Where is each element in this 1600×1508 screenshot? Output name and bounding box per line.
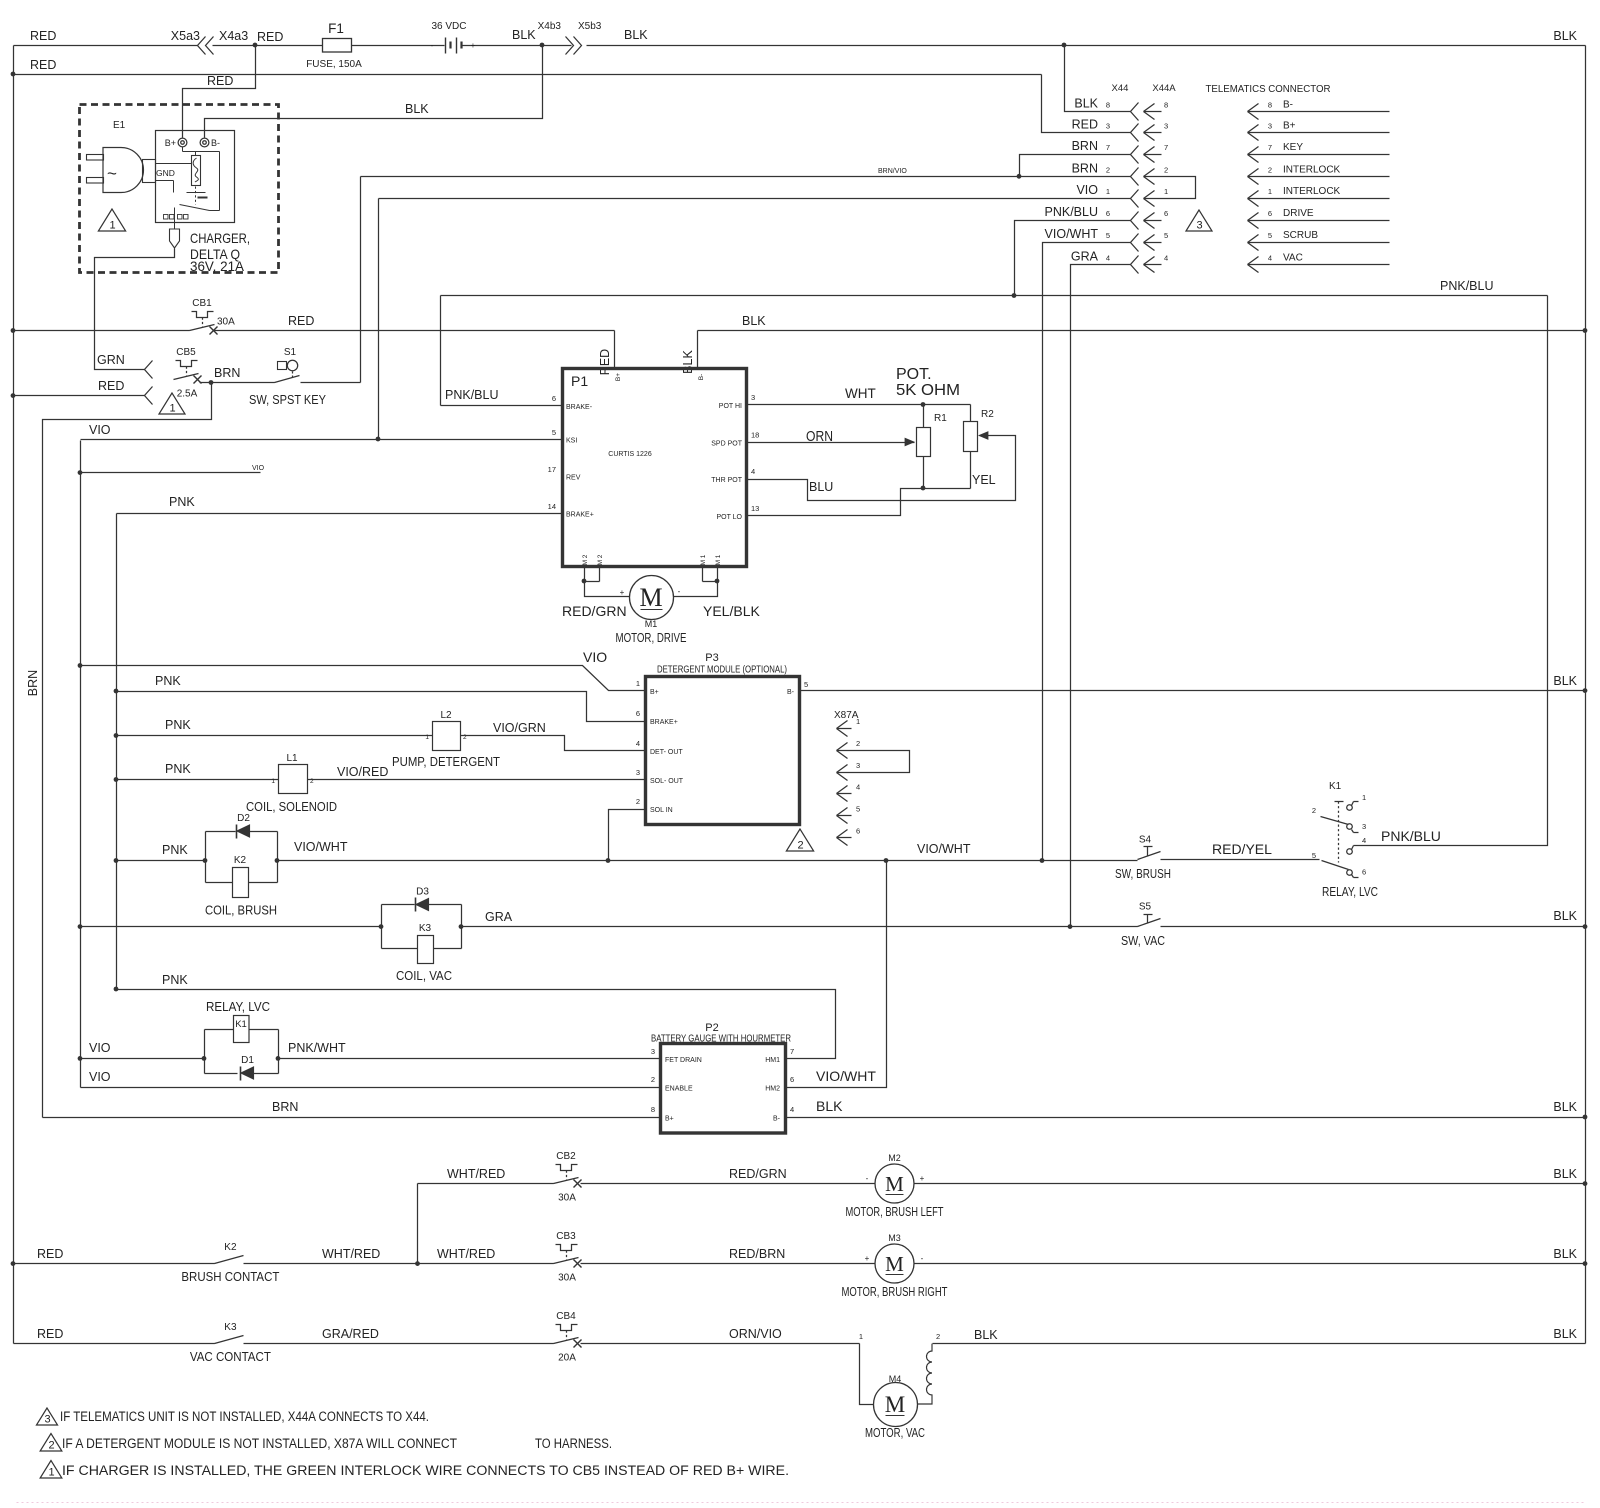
svg-text:RED/BRN: RED/BRN — [729, 1247, 785, 1261]
svg-text:BRAKE+: BRAKE+ — [566, 512, 594, 519]
svg-text:4: 4 — [790, 1105, 794, 1114]
wire VIO/RED from L1 to P3 SOL-OUT — [308, 765, 646, 780]
svg-text:B+: B+ — [650, 689, 659, 696]
svg-text:B+: B+ — [665, 1116, 674, 1123]
svg-text:3: 3 — [1362, 822, 1366, 831]
node junction left rail RED interlock row — [11, 393, 16, 398]
wire GRN charger interlock output — [95, 249, 175, 379]
node junction K1 loop right — [276, 1056, 281, 1061]
wire BLK from P3 B- to right rail — [800, 674, 1586, 691]
relay coil K3 with diode D3 loop — [382, 905, 462, 949]
svg-text:B-: B- — [773, 1116, 781, 1123]
svg-text:2: 2 — [1164, 165, 1168, 174]
svg-text:D1: D1 — [241, 1055, 254, 1066]
wire VIO to P3 B+ — [81, 649, 646, 691]
svg-text:PNK: PNK — [165, 718, 191, 732]
potentiometer labels POT. 5K OHM — [896, 366, 960, 399]
svg-text:BLK: BLK — [1553, 1247, 1577, 1261]
svg-text:GRN: GRN — [97, 353, 125, 367]
svg-text:3: 3 — [751, 393, 755, 402]
wire VIO/GRN from L2 to P3 DET-OUT — [461, 721, 646, 751]
wire right BLK rail vertical — [1585, 46, 1587, 1344]
svg-text:R2: R2 — [981, 409, 994, 420]
wire BLK charger B- to battery negative — [205, 46, 543, 138]
svg-text:RED: RED — [98, 379, 124, 393]
svg-text:6: 6 — [1362, 868, 1366, 877]
svg-text:PNK/BLU: PNK/BLU — [1381, 828, 1441, 844]
svg-text:3: 3 — [44, 1414, 50, 1426]
warning triangle note 3 — [1186, 210, 1212, 232]
warning triangle note 2 — [786, 829, 813, 852]
svg-text:X44A: X44A — [1152, 83, 1176, 94]
motor M4 — [865, 1374, 925, 1440]
svg-text:POT.: POT. — [896, 366, 932, 383]
relay coil K1 with diode D1 loop — [205, 999, 279, 1074]
gauge P2 battery gauge box — [651, 1022, 791, 1133]
svg-text:POT HI: POT HI — [719, 403, 742, 410]
svg-text:K3: K3 — [224, 1322, 237, 1333]
svg-text:VAC CONTACT: VAC CONTACT — [190, 1349, 271, 1364]
charger internal unit box — [156, 131, 235, 223]
node junction BRN row at pin7 riser — [1017, 174, 1022, 179]
charger internal relay contact — [175, 187, 220, 230]
svg-text:7: 7 — [790, 1047, 794, 1056]
svg-text:6: 6 — [636, 709, 640, 718]
wire PNK rail vertical — [116, 514, 118, 990]
wire VIO row to X44 pin1 — [379, 198, 1131, 200]
svg-text:BLK: BLK — [1553, 1327, 1577, 1341]
svg-text:4: 4 — [1268, 254, 1272, 263]
svg-text:PNK/BLU: PNK/BLU — [1440, 279, 1494, 293]
wire BRN/VIO row to X44 pin2 — [361, 168, 1131, 177]
charger internal battery symbol — [187, 193, 208, 198]
node junction BLK P3 row right rail — [1583, 688, 1588, 693]
svg-text:+: + — [620, 588, 625, 597]
svg-text:S1: S1 — [284, 347, 297, 358]
relay contact K2 — [181, 1242, 279, 1284]
svg-text:B+: B+ — [1283, 121, 1296, 132]
svg-text:5: 5 — [804, 680, 808, 689]
svg-text:COIL, VAC: COIL, VAC — [396, 968, 452, 983]
svg-text:3: 3 — [856, 761, 860, 770]
node junction PNK rail bottom row — [114, 987, 119, 992]
svg-text:TO HARNESS.: TO HARNESS. — [535, 1436, 612, 1451]
connector X5a3 X4a3 inline — [171, 29, 248, 55]
wire VIO from KSI junction up to X44 row — [378, 199, 380, 440]
wire RED from second rail to X44 pin3 — [1042, 75, 1131, 133]
svg-text:2: 2 — [856, 739, 860, 748]
svg-text:RED: RED — [1072, 118, 1098, 132]
svg-text:BRN: BRN — [26, 670, 40, 696]
diode D3 — [416, 887, 430, 912]
svg-text:P3: P3 — [705, 652, 718, 664]
svg-text:4: 4 — [856, 783, 860, 792]
note 2 text — [62, 1436, 612, 1451]
node junction BLK M3 row right rail — [1583, 1261, 1588, 1266]
svg-text:6: 6 — [856, 827, 860, 836]
svg-text:1: 1 — [1106, 187, 1110, 196]
relay coil K3 rectangle — [396, 923, 452, 983]
node junction WHT/RED at CB2 riser — [415, 1261, 420, 1266]
wire BRN to X44 pin7 — [1020, 155, 1131, 177]
svg-text:1: 1 — [1362, 793, 1366, 802]
svg-text:BRN: BRN — [272, 1100, 298, 1114]
node junction BLK row at right rail — [1583, 328, 1588, 333]
switch S1 key switch — [249, 347, 326, 407]
node junction VIO rail vac row — [78, 924, 83, 929]
svg-text:GND: GND — [156, 168, 175, 178]
wire BLK from vac coil to right rail — [933, 1327, 1586, 1344]
node junction VIO rail REV stub — [78, 470, 83, 475]
wire VIO to relay LVC coil — [81, 1041, 205, 1059]
svg-text:7: 7 — [1268, 143, 1272, 152]
svg-text:GRA: GRA — [485, 910, 513, 924]
wire M2 row CB2 branch riser — [417, 1184, 419, 1264]
node junction top rail at battery BLK drop — [540, 43, 545, 48]
pin labels P3 right — [787, 680, 808, 696]
circuit breaker CB5 — [174, 347, 202, 400]
svg-text:DETERGENT MODULE (OPTIONAL): DETERGENT MODULE (OPTIONAL) — [657, 664, 787, 676]
connector X44 to X44A rows — [1045, 96, 1169, 273]
svg-text:THR POT: THR POT — [711, 477, 742, 484]
svg-text:PNK: PNK — [165, 762, 191, 776]
svg-text:BLK: BLK — [405, 102, 429, 116]
svg-text:MOTOR, BRUSH LEFT: MOTOR, BRUSH LEFT — [846, 1204, 944, 1219]
svg-text:X4b3: X4b3 — [538, 21, 562, 32]
svg-text:M 1: M 1 — [700, 554, 707, 565]
svg-text:KEY: KEY — [1283, 142, 1303, 153]
wire WHT from POT HI to pot — [747, 386, 971, 405]
svg-text:RED: RED — [207, 74, 233, 88]
svg-text:4: 4 — [751, 467, 755, 476]
svg-text:1: 1 — [1268, 187, 1272, 196]
svg-text:K2: K2 — [224, 1242, 237, 1253]
relay contact K3 — [190, 1322, 271, 1364]
svg-text:S5: S5 — [1139, 902, 1152, 913]
wire BLK from M2 to right rail — [915, 1167, 1586, 1184]
wire RED battery to charger B+ — [183, 46, 256, 138]
svg-text:D2: D2 — [237, 813, 250, 824]
svg-text:2: 2 — [651, 1075, 655, 1084]
wire VIO left rail vertical — [80, 441, 82, 1088]
svg-text:1: 1 — [636, 679, 640, 688]
svg-text:BRAKE+: BRAKE+ — [650, 719, 678, 726]
svg-text:1: 1 — [169, 403, 175, 415]
pin labels P3 left — [636, 679, 684, 814]
svg-text:SOL- OUT: SOL- OUT — [650, 778, 684, 785]
svg-text:E1: E1 — [113, 120, 126, 131]
node junction K3 loop right — [459, 924, 464, 929]
svg-text:MOTOR, DRIVE: MOTOR, DRIVE — [616, 630, 687, 645]
wire PNK from rail to P2 HM1 — [117, 973, 836, 1059]
svg-text:BRN/VIO: BRN/VIO — [878, 168, 907, 175]
connector X4b3 X5b3 inline — [538, 21, 649, 55]
svg-text:P1: P1 — [571, 373, 588, 389]
svg-text:BLK: BLK — [512, 28, 536, 42]
svg-text:+: + — [471, 41, 476, 50]
svg-text:VIO/WHT: VIO/WHT — [816, 1068, 876, 1084]
charger E1 dashed enclosure — [80, 105, 279, 273]
svg-text:RED/GRN: RED/GRN — [562, 603, 627, 619]
svg-text:GRA/RED: GRA/RED — [322, 1327, 379, 1341]
wire BRN to P2 B+ — [43, 1100, 661, 1118]
circuit breaker CB2 — [554, 1151, 582, 1204]
svg-text:6: 6 — [552, 394, 556, 403]
svg-text:SW, BRUSH: SW, BRUSH — [1115, 866, 1171, 881]
node junction PNK rail row4 — [114, 858, 119, 863]
svg-text:BLK: BLK — [1553, 1167, 1577, 1181]
svg-text:YEL: YEL — [972, 473, 996, 487]
svg-text:M1: M1 — [645, 619, 658, 629]
svg-text:M 2: M 2 — [582, 554, 589, 565]
relay coil K2 rectangle — [205, 855, 277, 918]
svg-text:GRA: GRA — [1071, 250, 1099, 264]
svg-text:4: 4 — [1362, 836, 1366, 845]
svg-text:VAC: VAC — [1283, 253, 1303, 264]
wire RED interlock to open connector — [14, 379, 153, 405]
charger internal transformer winding — [192, 152, 201, 186]
svg-text:~: ~ — [107, 164, 117, 183]
svg-text:BRN: BRN — [1072, 139, 1098, 153]
node junction GRA at X44 pin4 riser — [1068, 924, 1073, 929]
node junction left rail CB1 row — [11, 328, 16, 333]
svg-text:HM2: HM2 — [765, 1086, 780, 1093]
svg-text:3: 3 — [1196, 220, 1202, 232]
svg-text:WHT: WHT — [845, 386, 876, 401]
svg-text:2: 2 — [48, 1440, 54, 1452]
svg-text:VIO/WHT: VIO/WHT — [917, 842, 971, 856]
wire PNK to solenoid L1 — [117, 762, 279, 780]
node junction top rail at B+ drop — [253, 43, 258, 48]
svg-text:PNK: PNK — [162, 843, 188, 857]
motor M2 — [846, 1153, 944, 1219]
svg-text:1: 1 — [859, 1332, 863, 1341]
wire PNK/BLU from X44 pin6 down to row — [1015, 221, 1131, 296]
relay coil K2 with diode D2 loop — [206, 832, 278, 883]
svg-text:WHT/RED: WHT/RED — [447, 1167, 505, 1181]
node junction POT LO at R1 bottom — [921, 486, 926, 491]
wire RED to vac contact K3 — [14, 1327, 215, 1344]
switch S5 — [1121, 902, 1165, 949]
svg-text:MOTOR, VAC: MOTOR, VAC — [865, 1425, 925, 1440]
svg-text:CB5: CB5 — [176, 347, 196, 358]
controller P1 CURTIS 1226 box — [563, 369, 747, 567]
svg-text:13: 13 — [751, 504, 759, 513]
svg-text:BLK: BLK — [974, 1328, 998, 1342]
svg-text:1: 1 — [271, 778, 275, 785]
svg-text:RELAY, LVC: RELAY, LVC — [206, 999, 270, 1014]
wire VIO KSI row — [81, 423, 563, 440]
motor M3 — [842, 1233, 948, 1299]
resistor R1 potentiometer — [917, 405, 948, 489]
svg-text:SOL IN: SOL IN — [650, 807, 673, 814]
AC plug symbol of charger — [87, 148, 156, 193]
wire BLK from M3 to right rail — [915, 1247, 1586, 1264]
svg-text:BRAKE-: BRAKE- — [566, 404, 593, 411]
wire ORN/VIO from CB4 to motor M4 — [581, 1327, 864, 1344]
svg-text:FUSE, 150A: FUSE, 150A — [306, 59, 362, 70]
svg-text:DET- OUT: DET- OUT — [650, 749, 683, 756]
inductor L1 solenoid coil — [246, 753, 337, 814]
svg-text:-: - — [866, 1174, 869, 1183]
svg-text:1: 1 — [109, 220, 115, 232]
svg-text:-: - — [431, 41, 434, 50]
svg-text:+: + — [920, 1174, 925, 1183]
inductor L2 detergent pump — [392, 710, 500, 769]
svg-text:BLK: BLK — [1553, 909, 1577, 923]
svg-text:L2: L2 — [440, 710, 452, 721]
battery 36 VDC — [431, 21, 537, 54]
svg-text:M: M — [639, 583, 662, 612]
wire BLK from P2 B- to right rail — [786, 1098, 1586, 1118]
svg-text:RED/YEL: RED/YEL — [1212, 841, 1272, 857]
svg-text:INTERLOCK: INTERLOCK — [1283, 186, 1341, 197]
diode D1 — [241, 1055, 255, 1081]
svg-text:8: 8 — [1106, 100, 1110, 109]
svg-text:CB2: CB2 — [556, 1151, 576, 1162]
wire BLK from P1 B- to right rail — [681, 314, 1586, 374]
svg-text:B-: B- — [698, 374, 705, 381]
node junction top rail at X44 BLK drop — [1062, 43, 1067, 48]
svg-text:RED: RED — [37, 1327, 63, 1341]
svg-text:X5a3: X5a3 — [171, 29, 200, 43]
wire VIO to P2 ENABLE — [81, 1070, 661, 1088]
warning triangle note 3 — [36, 1408, 57, 1426]
svg-text:2: 2 — [936, 1332, 940, 1341]
node junction left rail second RED row — [11, 72, 16, 77]
svg-text:M 2: M 2 — [597, 554, 604, 565]
wire RED/GRN from CB2 to motor M2 — [581, 1167, 876, 1184]
svg-text:3: 3 — [651, 1047, 655, 1056]
node junction K3 loop left — [379, 924, 384, 929]
wire YEL POT LO to pot bottoms — [747, 473, 996, 516]
node junction PNK rail row1 — [114, 689, 119, 694]
svg-text:COIL, BRUSH: COIL, BRUSH — [205, 903, 277, 918]
svg-text:ENABLE: ENABLE — [665, 1086, 693, 1093]
wire BRN from S1 up to telematics row — [301, 177, 361, 383]
wire down to vac motor M4 — [860, 1344, 874, 1405]
wire BRN from CB5 to key switch S1 — [200, 366, 275, 383]
wire VIO/WHT from P2 HM2 up to row — [786, 861, 887, 1088]
charger internal GND wiring — [156, 164, 192, 193]
charger bottom terminal ticks — [164, 215, 189, 220]
svg-text:5: 5 — [1312, 851, 1316, 860]
wire PNK/WHT from K1 to P2 FET DRAIN — [279, 1041, 661, 1059]
svg-text:-: - — [678, 587, 681, 596]
svg-text:ORN/VIO: ORN/VIO — [729, 1327, 782, 1341]
svg-text:PNK: PNK — [155, 674, 181, 688]
svg-text:INTERLOCK: INTERLOCK — [1283, 164, 1341, 175]
svg-text:B-: B- — [1283, 99, 1293, 110]
svg-text:BLK: BLK — [742, 314, 766, 328]
svg-text:M4: M4 — [889, 1374, 902, 1384]
resistor R2 potentiometer — [964, 405, 995, 489]
motor M1 — [616, 576, 687, 646]
wire M1 output bracket of P1 — [674, 567, 718, 597]
svg-text:K3: K3 — [419, 923, 432, 934]
node junction VIO/WHT at SOL IN — [606, 858, 611, 863]
svg-text:PNK: PNK — [162, 973, 188, 987]
svg-text:5: 5 — [1106, 231, 1110, 240]
svg-text:2: 2 — [1268, 165, 1272, 174]
wire PNK/BLU long row — [441, 279, 1548, 296]
relay K1 LVC contacts — [1312, 781, 1441, 899]
svg-text:IF TELEMATICS UNIT IS NOT INST: IF TELEMATICS UNIT IS NOT INSTALLED, X44… — [60, 1409, 429, 1424]
svg-text:VIO: VIO — [89, 423, 111, 437]
svg-text:PNK/BLU: PNK/BLU — [445, 388, 499, 402]
svg-text:VIO: VIO — [89, 1041, 111, 1055]
svg-text:2: 2 — [636, 797, 640, 806]
svg-text:RED: RED — [37, 1247, 63, 1261]
wire BRN junction down to BRN rail — [43, 383, 212, 1118]
node junction VIO/WHT at X44 pin5 riser — [1040, 858, 1045, 863]
svg-text:KSI: KSI — [566, 438, 577, 445]
svg-text:BLK: BLK — [816, 1098, 843, 1114]
svg-text:CHARGER,: CHARGER, — [190, 230, 250, 246]
svg-text:VIO: VIO — [1076, 183, 1098, 197]
pin markers P1 top B+ B- — [615, 373, 705, 381]
svg-text:BLK: BLK — [1074, 96, 1098, 110]
wire RED from rail to CB1 — [14, 330, 190, 332]
terminal B+ of charger — [165, 138, 187, 148]
svg-text:S4: S4 — [1139, 834, 1152, 845]
svg-text:30A: 30A — [558, 1193, 576, 1204]
charger internal B+ feed wiring — [183, 147, 220, 211]
svg-text:K1: K1 — [235, 1019, 247, 1030]
svg-text:RED: RED — [257, 30, 283, 44]
svg-text:F1: F1 — [328, 21, 344, 36]
circuit breaker CB1 — [190, 298, 236, 335]
node junction POT HI at R1 top — [921, 402, 926, 407]
svg-text:8: 8 — [1268, 100, 1272, 109]
svg-text:TELEMATICS CONNECTOR: TELEMATICS CONNECTOR — [1206, 84, 1331, 95]
svg-text:CB3: CB3 — [556, 1231, 576, 1242]
svg-text:7: 7 — [1106, 143, 1110, 152]
svg-text:BLK: BLK — [1553, 1100, 1577, 1114]
svg-text:5: 5 — [1268, 231, 1272, 240]
pin labels P1 left side — [548, 394, 594, 519]
wire RED/BRN from CB3 to motor M3 — [581, 1247, 876, 1264]
svg-text:SPD POT: SPD POT — [711, 441, 742, 448]
wire GRA from X44 pin4 down to vac row — [1071, 265, 1131, 927]
svg-text:X44: X44 — [1112, 83, 1129, 94]
pin labels P2 right — [765, 1047, 794, 1123]
svg-text:RED: RED — [30, 58, 56, 72]
wire PNK BRAKE+ row — [117, 495, 563, 514]
wire PNK to coil brush K2 — [117, 860, 206, 862]
circuit breaker CB3 — [554, 1231, 582, 1284]
svg-text:20A: 20A — [558, 1353, 576, 1364]
wire RED second rail — [14, 58, 1042, 75]
wire RED/YEL from S4 to relay K1 — [1161, 841, 1320, 860]
svg-text:7: 7 — [1164, 143, 1168, 152]
svg-text:6: 6 — [790, 1075, 794, 1084]
svg-text:B+: B+ — [615, 373, 622, 381]
svg-text:RELAY, LVC: RELAY, LVC — [1322, 884, 1378, 899]
svg-text:MOTOR, BRUSH RIGHT: MOTOR, BRUSH RIGHT — [842, 1284, 948, 1299]
diode D2 — [237, 813, 251, 839]
svg-text:BRUSH CONTACT: BRUSH CONTACT — [181, 1269, 279, 1284]
svg-text:PNK/WHT: PNK/WHT — [288, 1041, 346, 1055]
node junction BLK S5 row right rail — [1583, 924, 1588, 929]
wire WHT/RED to CB2 — [418, 1167, 554, 1184]
node junction VIO rail LVC row — [78, 1056, 83, 1061]
wire RED top battery rail — [14, 29, 1586, 46]
svg-text:POT LO: POT LO — [716, 514, 742, 521]
wire PNK/BLU from P1 BRAKE- up to long row — [441, 296, 563, 406]
wire X44A interlock loopback pins 2-1 — [1162, 177, 1196, 199]
svg-text:5: 5 — [856, 805, 860, 814]
